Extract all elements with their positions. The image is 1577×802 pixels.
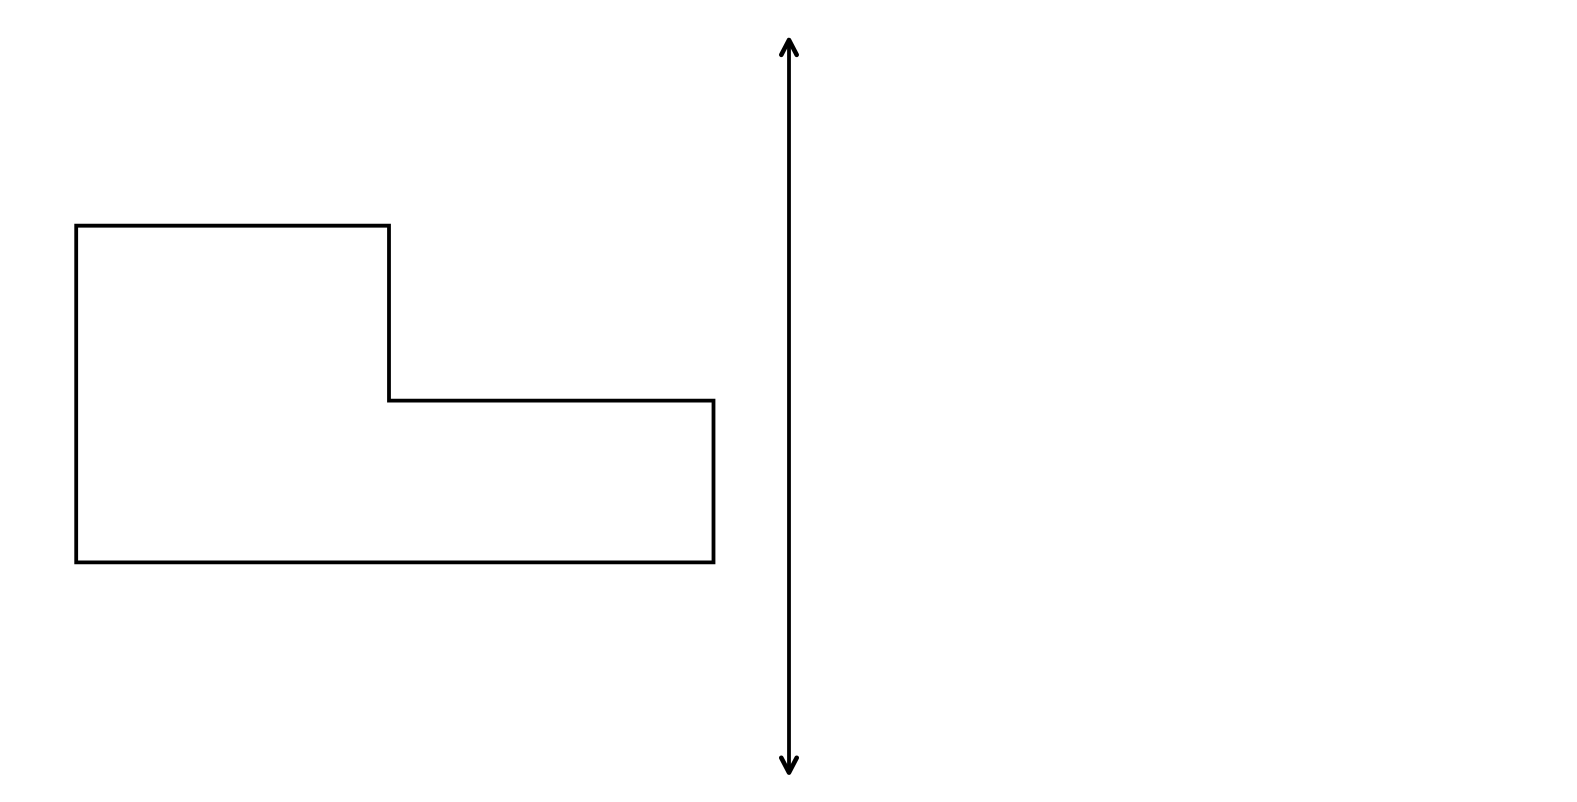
- top arrowhead: [781, 40, 796, 55]
- bottom arrowhead: [781, 758, 796, 773]
- L-shaped polygon: [76, 226, 713, 563]
- vertical mirror-line arrow shaft: [787, 42, 791, 770]
